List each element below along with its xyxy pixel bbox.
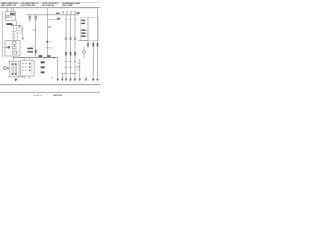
header title text column 4 <box>62 2 81 7</box>
connector box C2 <box>21 60 34 76</box>
switch inner riser 2 <box>13 49 15 51</box>
fuse F3 <box>29 16 31 19</box>
stub below diode D5 <box>87 46 89 49</box>
tail wire x93.2 <box>92 41 94 80</box>
wire destination label 3 <box>41 71 45 73</box>
inline connectors on lamp wires y38 <box>65 38 76 40</box>
plug P1 circle <box>4 67 7 70</box>
header title text column 3 <box>42 3 59 7</box>
header title text column 1 <box>1 2 18 7</box>
junction node on x47 <box>46 41 48 43</box>
terminator tick x52 <box>51 76 53 78</box>
wire into switch box pin B <box>17 33 19 41</box>
ECU box U1 <box>81 18 99 41</box>
fuse stub wire x30 <box>29 15 31 22</box>
wire drop at column x23 <box>22 26 24 39</box>
bracket ticks on x79.8 <box>78 63 80 69</box>
diode D1 bar <box>35 52 37 54</box>
branch wire y19.6 from ignition feed <box>47 19 59 21</box>
bus stub up 4 with node <box>74 12 76 15</box>
link wire y73.4 left <box>62 72 67 74</box>
tail wire x97.5 lower <box>97 41 99 80</box>
sensor circle G1 <box>83 50 86 53</box>
wire from return bus into switch <box>3 46 6 48</box>
svg-text:LIGHT RELAYS: LIGHT RELAYS <box>21 4 37 7</box>
switch contact block 1 <box>13 42 16 45</box>
ignition feed wire x47 <box>46 8 48 58</box>
wire to dedicated fuse with arrow <box>11 25 21 27</box>
wire destination label 1 <box>41 61 45 63</box>
ECU pin label row 2 <box>81 23 85 25</box>
wire label row mid-left lower <box>27 51 33 53</box>
net label at end of y19.6 branch <box>57 18 60 19</box>
C2 pin row 2 <box>22 66 27 68</box>
bus stub up 3 with node <box>70 12 72 15</box>
connector ticks on lamp wires y61.5 <box>65 61 77 63</box>
stub wire x86 bottom <box>85 77 87 80</box>
lamp wire L3 x75 <box>74 15 76 80</box>
fuse F1 in block <box>10 13 12 15</box>
branch wire y67 to x79.8 <box>75 66 80 68</box>
arrowhead end of column x23 wire <box>22 38 24 40</box>
terminator on x93.2 <box>92 78 94 80</box>
C2 bottom stub 1 <box>24 76 26 79</box>
wire from switch bottom to lower bus <box>12 56 14 58</box>
main feed wire x36 <box>35 15 37 57</box>
fuse F2 in block <box>13 13 15 15</box>
relay K1 contact mark <box>18 29 21 31</box>
top feed bus wire <box>27 14 79 16</box>
C1 terminal bar 2 <box>15 64 16 75</box>
ECU pin label row 1 <box>81 20 85 22</box>
svg-text:NO.5 RELAY: NO.5 RELAY <box>42 4 55 7</box>
lighting switch box S1 <box>5 41 20 56</box>
bus stub up 2 with node <box>66 12 68 15</box>
bottom terminator arrow x75 <box>74 78 76 80</box>
connector ticks on lamp wires y67 <box>65 66 72 68</box>
stub from lower bus into connector box C2 pin 1 <box>24 58 26 61</box>
arrowhead on lower wire right <box>53 57 55 59</box>
ECU pin label row 4 <box>81 32 85 34</box>
wire plug to connector box <box>6 67 9 69</box>
switch coil mark <box>8 46 10 48</box>
ground drop wire from C2 area <box>15 75 24 78</box>
footer rule <box>0 91 100 93</box>
svg-text:TAIL LAMP SW: TAIL LAMP SW <box>1 4 16 7</box>
lower distribution wire y57.5 <box>13 57 58 59</box>
header bottom rule <box>0 7 100 9</box>
net label above main bus at x57 <box>56 13 59 14</box>
terminator arrowheads <box>57 79 59 81</box>
node dot in block <box>11 17 12 18</box>
C2 inner right rail <box>31 62 33 74</box>
C1 terminal bar 1 <box>12 64 13 75</box>
link wire y73.4 right <box>69 72 77 74</box>
C2 bottom stub 2 <box>29 76 31 79</box>
wire label row mid-left upper <box>27 48 33 50</box>
ECU feed wire x97.5 top <box>97 8 99 40</box>
wire stub from header to block pin 3 <box>13 8 15 11</box>
wire into switch box pin A <box>13 24 15 41</box>
riser wire x57.7 to bottom <box>57 58 59 81</box>
relay K1 box <box>17 28 22 33</box>
diode D7 <box>96 43 98 45</box>
wire destination label 2 <box>41 66 45 68</box>
svg-text:A-2: A-2 <box>50 47 53 50</box>
lamp wire L1 x66 <box>65 15 67 80</box>
connector box C1 <box>9 61 19 77</box>
wire below sensor G1 <box>83 53 85 58</box>
switch contact block 2 <box>13 46 16 49</box>
ECU pin label row 3 <box>81 29 85 31</box>
ECU pin wire row 3 <box>85 29 88 31</box>
arrowhead on lower wire left <box>44 57 46 59</box>
stub from lower bus into connector box C2 pin 2 <box>29 58 31 61</box>
label underline below relay <box>12 30 17 32</box>
lamp wire L2 x70.5 <box>70 15 72 80</box>
connector tick on x47 <box>46 47 49 49</box>
ECU internal wire x88 <box>87 18 89 44</box>
header top rule <box>0 1 100 3</box>
arrowhead into connector box <box>8 67 10 69</box>
wire name label 2 on lower wire <box>47 55 50 57</box>
C2 pin row 3 <box>22 69 27 71</box>
diode D6 <box>92 43 94 45</box>
svg-text:a + b - c: a + b - c <box>34 95 42 97</box>
battery terminal circle <box>6 15 9 18</box>
riser wire x62.3 to bottom <box>61 73 63 80</box>
diode D2 on L1 <box>65 52 67 54</box>
header title text column 2 <box>21 3 39 7</box>
bottom terminator arrow x62.3 <box>61 78 63 80</box>
ECU pin wire row 5 <box>85 35 88 37</box>
arrowhead on fuse feed wire <box>19 25 21 27</box>
connector tick on x36 wire <box>33 29 36 31</box>
bottom terminator arrow x66 <box>65 78 67 80</box>
bottom terminator arrow x79.8 <box>79 78 81 80</box>
diode D1 on x36 wire <box>35 50 37 52</box>
switch contact block 3 <box>13 51 17 54</box>
svg-text:19W-52 B: 19W-52 B <box>53 95 63 97</box>
battery junction block B1 <box>6 12 16 21</box>
net label on ignition feed <box>48 26 51 27</box>
schematic bottom rule <box>0 84 100 86</box>
wire above sensor G1 <box>83 47 85 51</box>
ECU pin wire row 4 <box>85 32 88 34</box>
wire: left return bus <box>2 11 4 58</box>
connector ticks on lamp wires y19 <box>65 18 76 20</box>
svg-text:TAIL LAMP: TAIL LAMP <box>62 4 74 7</box>
wire from block right side down <box>16 21 18 26</box>
connector pin labels C-01 <box>12 34 15 40</box>
fuse F4 <box>35 16 37 19</box>
diode D3 on L2 <box>69 52 71 54</box>
stub from lower bus into connector box C1 <box>13 58 15 62</box>
switch inner riser 1 <box>13 45 15 47</box>
wire stub from header to block pin 2 <box>10 8 12 11</box>
C2 pin row 1 <box>22 63 27 65</box>
wire name label on lower wire <box>39 55 43 57</box>
ECU pin label row 5 <box>81 35 85 37</box>
bottom terminator arrow x70.5 <box>69 78 71 80</box>
ground arrow G2 <box>15 79 17 82</box>
diode D5 <box>87 43 89 45</box>
terminator on x97.5 <box>96 78 98 80</box>
ECU bottom wire y40.7 <box>78 40 88 42</box>
bottom terminator arrow x57.7 <box>57 78 59 80</box>
branch riser x79.8 <box>79 59 81 80</box>
net label right of bus <box>77 12 80 14</box>
bus stub up 1 with node <box>62 12 64 15</box>
wire stub from header to block pin 1 <box>7 8 9 11</box>
node dot left of switch <box>6 47 7 48</box>
fusible link label <box>7 23 13 25</box>
diode D4 on L3 <box>74 52 76 54</box>
